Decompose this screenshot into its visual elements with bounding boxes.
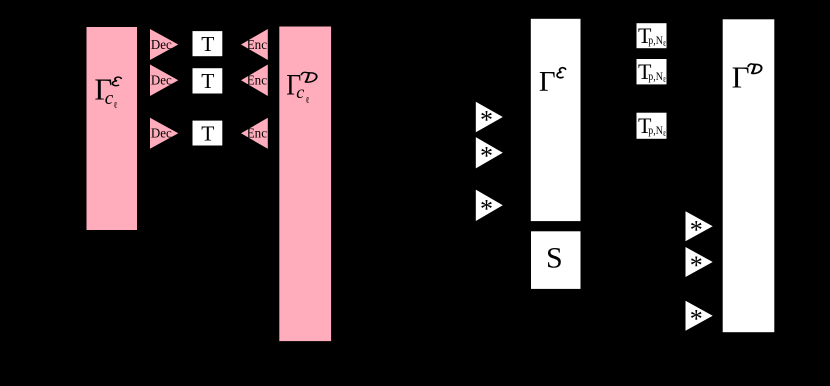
svg-text:S: S xyxy=(546,242,563,275)
T box row 2 xyxy=(193,68,223,93)
svg-text:Γ: Γ xyxy=(732,59,750,94)
Enc triangle row 2 xyxy=(241,65,268,97)
Dec triangle row 1 xyxy=(150,29,178,60)
label Γ^D xyxy=(732,59,762,94)
svg-text:ℓ: ℓ xyxy=(305,95,309,105)
svg-text:Enc: Enc xyxy=(247,74,267,89)
svg-text:Γ: Γ xyxy=(539,66,556,98)
svg-text:*: * xyxy=(690,251,703,280)
svg-text:ℓ: ℓ xyxy=(663,129,667,138)
svg-text:Dec: Dec xyxy=(151,127,172,142)
svg-text:*: * xyxy=(690,215,703,244)
decoder stack block Γ^D_cl (pink) xyxy=(279,27,331,342)
label Γ^E_cl xyxy=(94,72,121,111)
encoder stack block Γ^E_cl (pink) xyxy=(87,27,138,230)
label Γ^D_cl xyxy=(286,69,316,106)
T_p,N box 3 xyxy=(637,113,667,139)
svg-text:*: * xyxy=(480,106,493,135)
T box row 3 xyxy=(193,121,223,146)
svg-text:Enc: Enc xyxy=(247,38,267,53)
Dec triangle row 3 xyxy=(150,118,178,149)
svg-text:*: * xyxy=(690,305,703,334)
svg-text:Dec: Dec xyxy=(151,74,172,89)
S box xyxy=(531,231,581,289)
svg-text:Dec: Dec xyxy=(151,38,172,53)
label Γ^E xyxy=(539,66,566,98)
T_p,N box 2 xyxy=(637,59,667,84)
svg-text:p,N: p,N xyxy=(648,71,663,83)
Dec triangle row 2 xyxy=(150,65,178,97)
T box row 1 xyxy=(193,31,223,56)
Enc triangle row 1 xyxy=(241,29,268,60)
svg-text:T: T xyxy=(201,121,214,145)
svg-text:c: c xyxy=(296,82,304,102)
svg-text:*: * xyxy=(480,194,493,223)
star triangle (decoder side) row 2 xyxy=(686,247,713,280)
star triangle (encoder side) row 1 xyxy=(476,102,503,135)
svg-text:ℓ: ℓ xyxy=(663,75,667,84)
star triangle (decoder side) row 3 xyxy=(686,301,713,334)
Enc triangle row 3 xyxy=(241,118,268,149)
star triangle (encoder side) row 3 xyxy=(476,190,503,224)
svg-text:p,N: p,N xyxy=(648,125,663,137)
svg-text:T: T xyxy=(201,69,214,93)
svg-text:ℓ: ℓ xyxy=(113,100,117,110)
svg-text:p,N: p,N xyxy=(648,35,663,47)
T_p,N box 1 xyxy=(637,23,667,48)
svg-text:ℓ: ℓ xyxy=(663,39,667,48)
decoder block Γ^D (white) xyxy=(723,19,775,332)
star triangle (decoder side) row 1 xyxy=(686,211,713,244)
svg-text:*: * xyxy=(480,142,493,171)
star triangle (encoder side) row 2 xyxy=(476,137,503,171)
encoder block Γ^E (white) xyxy=(531,19,581,221)
svg-text:T: T xyxy=(201,32,214,56)
svg-text:Enc: Enc xyxy=(247,127,267,142)
